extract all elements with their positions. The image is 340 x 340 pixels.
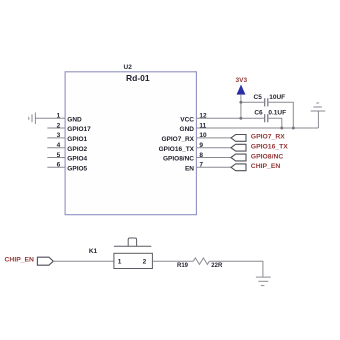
svg-text:GPIO2: GPIO2 — [67, 146, 87, 153]
svg-text:C5: C5 — [254, 94, 263, 101]
svg-text:EN: EN — [185, 166, 194, 173]
svg-text:CHIP_EN: CHIP_EN — [5, 257, 35, 264]
wire 3V3 stem — [240, 94, 242, 118]
svg-text:VCC: VCC — [180, 116, 194, 123]
svg-text:GPIO16_TX: GPIO16_TX — [159, 146, 195, 153]
net flag CHIP_EN (bottom) — [37, 257, 53, 265]
pin 4 wire — [47, 147, 65, 149]
capacitor C5 — [265, 98, 268, 106]
pin 9 wire — [196, 147, 231, 149]
pin 2 wire — [47, 127, 65, 129]
wire K1 pin 2 to R19 — [152, 260, 193, 262]
net flag GPIO7_RX — [231, 135, 246, 142]
svg-text:10UF: 10UF — [269, 94, 285, 101]
ground symbol top right (earth, bars up) — [311, 103, 326, 111]
wire R19 to ground — [209, 261, 263, 277]
svg-text:1: 1 — [118, 258, 122, 265]
net flag GPIO8/NC — [231, 154, 246, 161]
svg-text:6: 6 — [57, 162, 61, 169]
svg-text:7: 7 — [199, 162, 203, 169]
junction C6 / GND rail — [280, 127, 283, 130]
ground symbol bottom right (earth) — [256, 277, 271, 286]
pin 7 wire — [196, 166, 231, 168]
svg-text:GPIO7_RX: GPIO7_RX — [251, 134, 285, 141]
svg-text:10: 10 — [199, 132, 207, 139]
wire C6 branch right — [269, 118, 282, 128]
switch K1 body — [114, 253, 152, 268]
svg-text:GND: GND — [67, 116, 82, 123]
pin 11 wire — [196, 127, 318, 129]
svg-text:GPIO7_RX: GPIO7_RX — [161, 136, 194, 143]
ground symbol at pin 1 (sideways earth) — [29, 112, 36, 124]
svg-text:R19: R19 — [177, 263, 189, 269]
svg-text:12: 12 — [199, 113, 207, 120]
svg-text:9: 9 — [199, 142, 203, 149]
svg-text:K1: K1 — [89, 248, 98, 255]
pin 10 wire — [196, 137, 231, 139]
wire CHIP_EN flag to K1 pin 1 — [53, 260, 114, 262]
svg-text:GND: GND — [180, 126, 195, 133]
svg-text:GPIO16_TX: GPIO16_TX — [251, 144, 288, 151]
svg-text:C6: C6 — [254, 110, 263, 117]
wire C5 branch right — [269, 102, 294, 128]
capacitor C6 — [265, 114, 268, 122]
IC U2 body — [65, 72, 196, 215]
svg-text:U2: U2 — [124, 64, 133, 71]
svg-text:3V3: 3V3 — [236, 77, 248, 84]
svg-text:0.1UF: 0.1UF — [268, 110, 286, 117]
net flag CHIP_EN — [231, 164, 246, 171]
net flag GPIO16_TX — [231, 144, 246, 151]
pin 12 wire — [196, 117, 264, 119]
svg-text:4: 4 — [57, 142, 61, 149]
svg-text:1: 1 — [57, 113, 61, 120]
junction 3V3 stem / VCC wire — [239, 117, 242, 120]
svg-text:GPIO8/NC: GPIO8/NC — [163, 156, 194, 163]
svg-text:22R: 22R — [211, 263, 223, 269]
switch K1 actuator bar — [114, 245, 151, 247]
svg-text:2: 2 — [57, 122, 61, 129]
svg-text:CHIP_EN: CHIP_EN — [251, 163, 281, 170]
svg-text:GPIO4: GPIO4 — [67, 156, 87, 163]
svg-text:8: 8 — [199, 152, 203, 159]
svg-text:2: 2 — [143, 258, 147, 265]
svg-text:3: 3 — [57, 132, 61, 139]
junction C5 / GND rail — [292, 127, 295, 130]
pin 3 wire — [47, 137, 65, 139]
pin 6 wire — [47, 166, 65, 168]
svg-text:GPIO8/NC: GPIO8/NC — [251, 153, 284, 160]
svg-text:GPIO5: GPIO5 — [67, 166, 87, 173]
pin 5 wire — [47, 157, 65, 159]
junction 3V3 stem / C5 branch — [239, 101, 242, 104]
wire GND rail riser — [317, 111, 319, 128]
svg-text:GPIO1: GPIO1 — [67, 136, 87, 143]
power symbol 3V3 triangle — [237, 86, 244, 94]
svg-text:Rd-01: Rd-01 — [126, 73, 150, 83]
switch K1 button cap — [128, 238, 136, 246]
resistor R19 zigzag — [193, 258, 209, 265]
svg-text:GPIO17: GPIO17 — [67, 126, 91, 133]
pin 8 wire — [196, 157, 231, 159]
svg-text:11: 11 — [199, 122, 206, 129]
wire C5 branch left — [241, 101, 264, 103]
pin 1 wire — [35, 117, 65, 119]
svg-text:5: 5 — [57, 152, 61, 159]
